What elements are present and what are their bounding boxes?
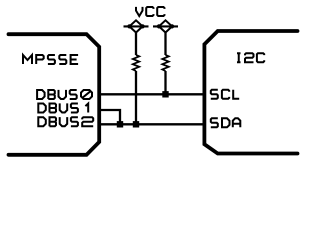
net label VCC: [136, 7, 165, 16]
chip U1 MPSSE outline: [9, 34, 100, 155]
pin label SDA: [211, 118, 241, 127]
wire R1 to SDA vertical: [135, 32, 137, 123]
pin label DBUS0: [37, 90, 92, 99]
junction R2/SCL: [162, 91, 168, 97]
VCC supply symbol left: [124, 20, 149, 32]
junction R1/SDA: [133, 121, 139, 127]
wire DBUS1 to SDA: [101, 110, 120, 123]
resistor R2: [162, 55, 168, 71]
resistor R1: [133, 55, 139, 71]
pin label DBUS2: [38, 117, 93, 126]
chip label I2C: [237, 53, 264, 62]
pin label SCL: [211, 90, 239, 99]
wire SCL net: [101, 93, 204, 95]
wire R2 to SCL vertical: [164, 32, 166, 93]
junction DBUS1/SDA: [117, 121, 123, 127]
chip U2 I2C outline: [204, 31, 297, 154]
pin label DBUS1: [38, 103, 88, 112]
chip label MPSSE: [23, 55, 78, 64]
wire SDA net: [101, 123, 204, 125]
VCC supply symbol right: [153, 20, 178, 32]
